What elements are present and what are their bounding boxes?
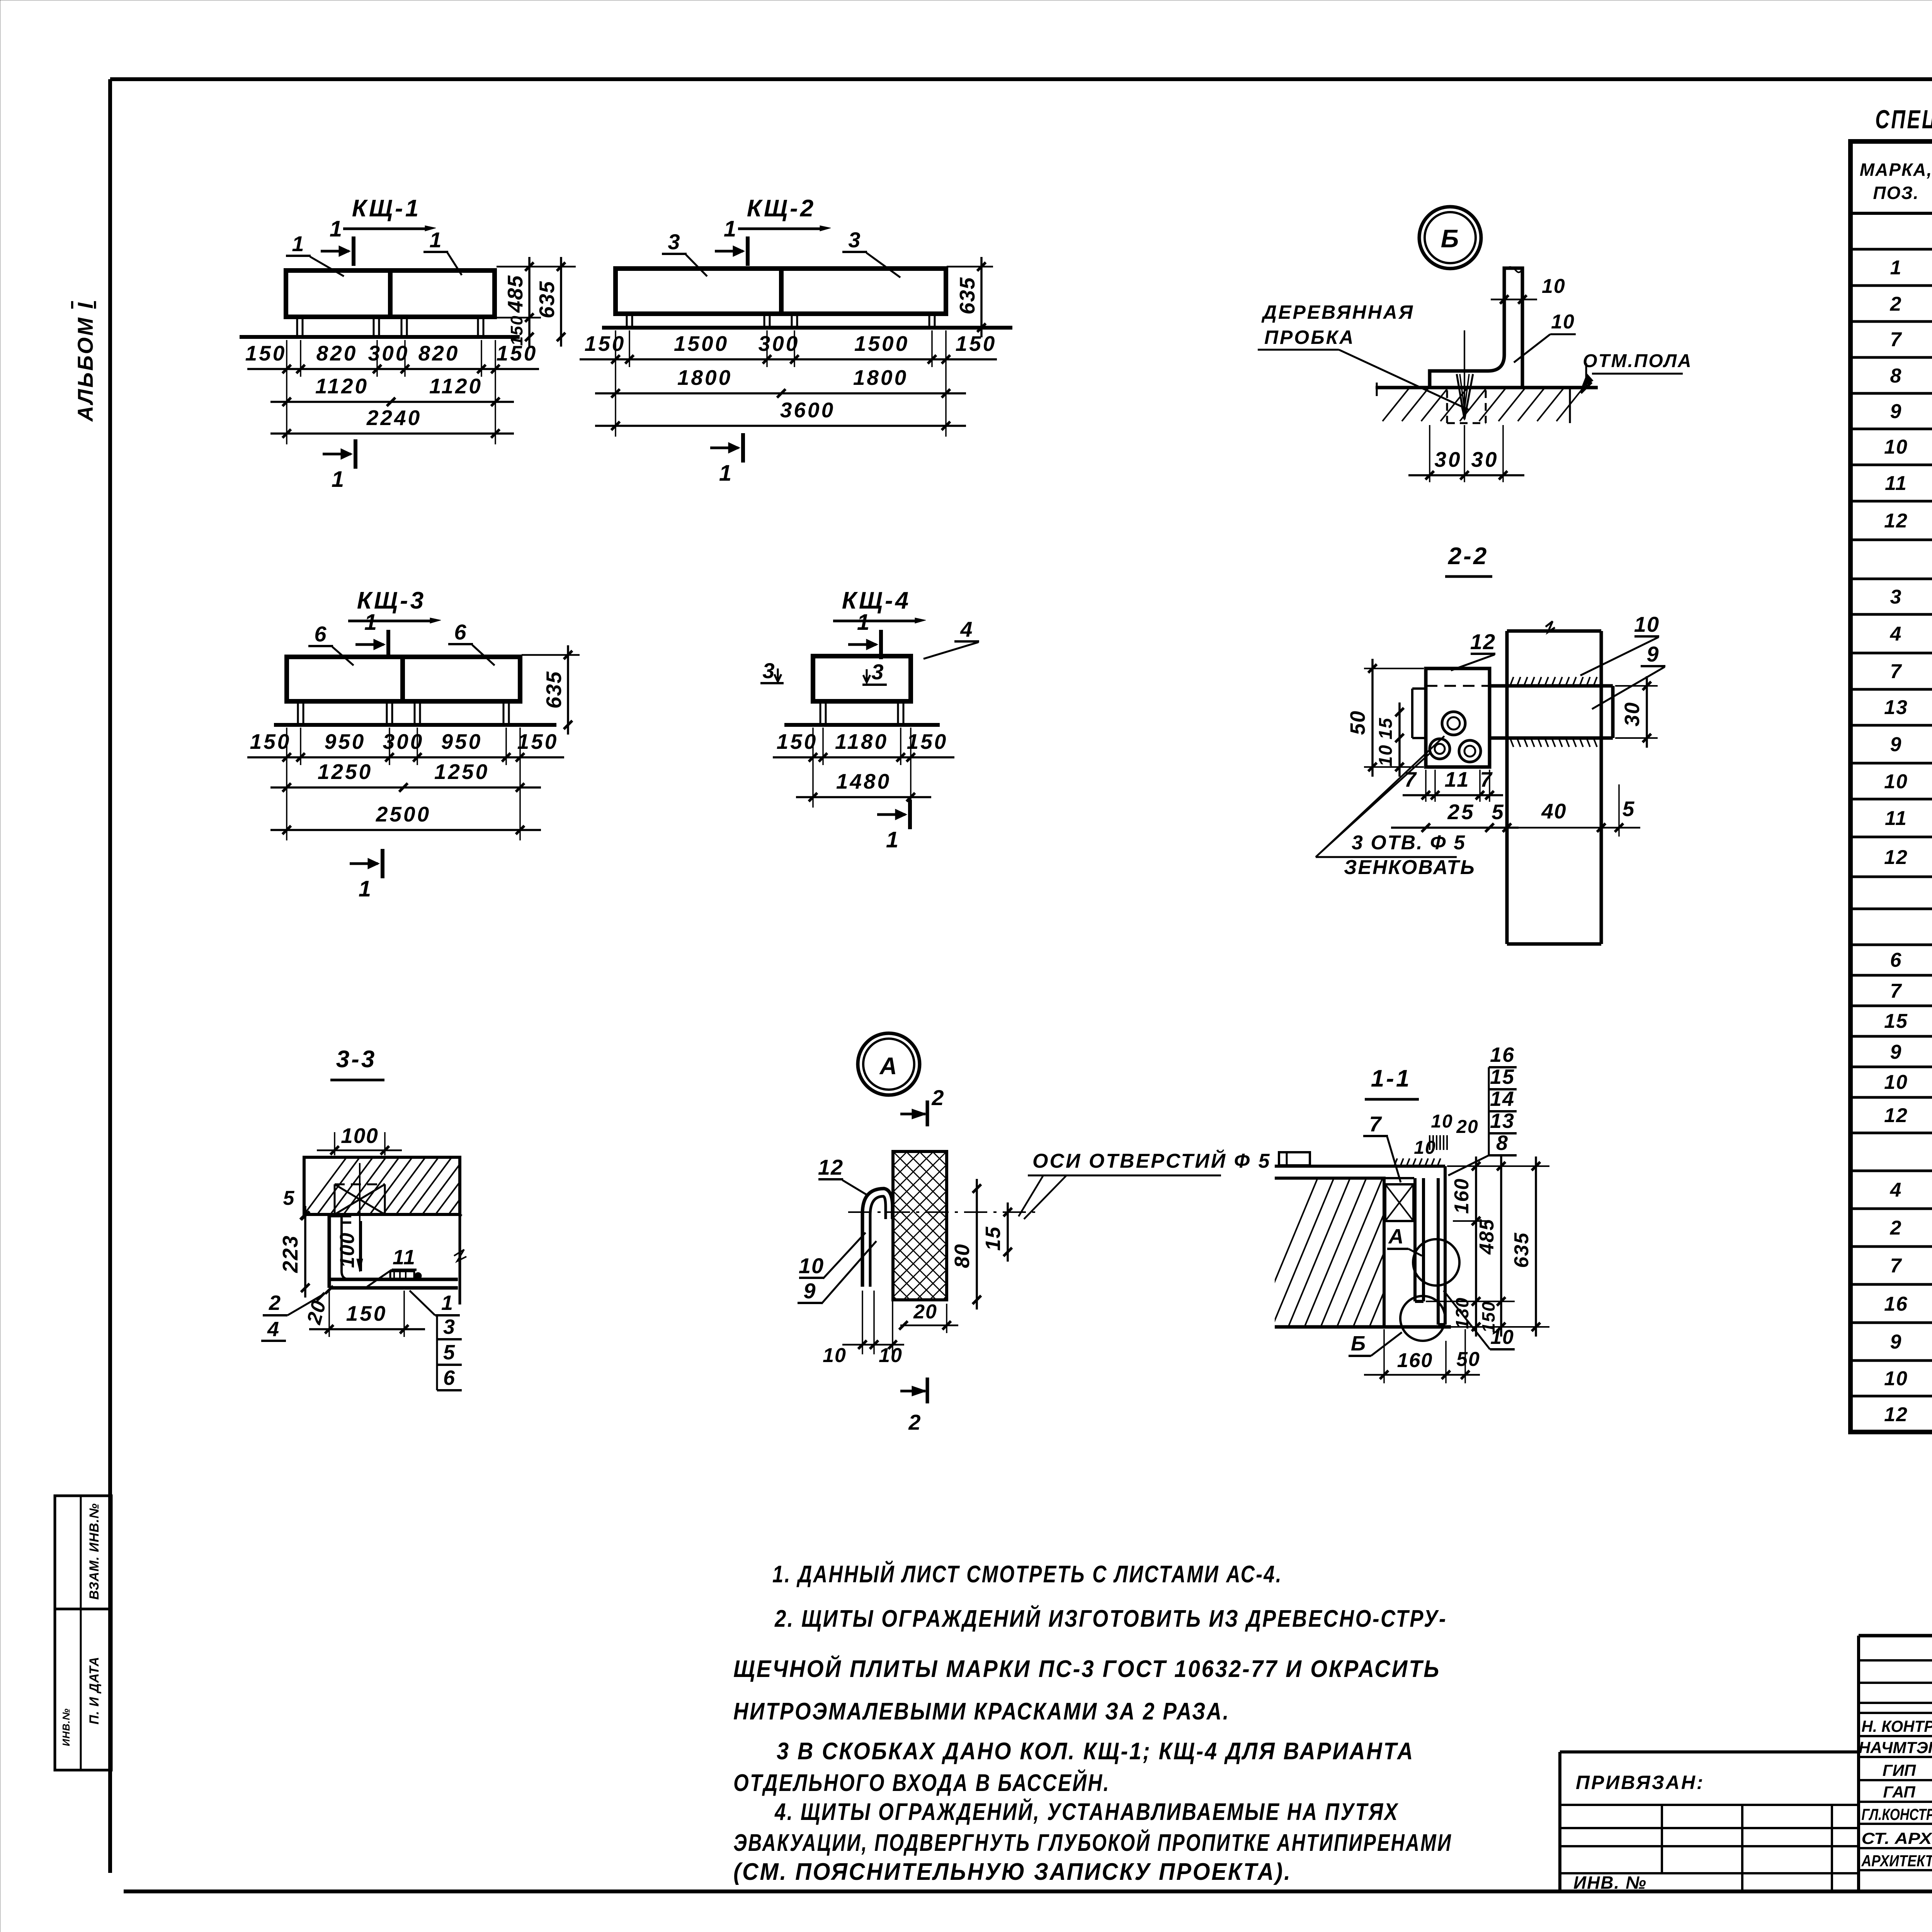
svg-text:ОТДЕЛЬНОГО ВХОДА В БАССЕЙН: ОТДЕЛЬНОГО ВХОДА В БАССЕЙН. [733,1769,1110,1796]
right dims 160/485/130/150/635 (1-1) [1447,1165,1549,1167]
top strip (1-1) [1275,1165,1445,1168]
panel КЩ-3 body [287,657,520,701]
detail circle А [858,1033,920,1095]
svg-text:2. ЩИТЫ ОГРАЖДЕНИЙ ИЗГОТОВИТ: 2. ЩИТЫ ОГРАЖДЕНИЙ ИЗГОТОВИТЬ ИЗ ДРЕВЕСН… [774,1605,1447,1632]
C-profile (3-3) [329,1216,458,1288]
floor line and hatch (detail Б) [1376,386,1598,389]
svg-text:СТ. АРХ.: СТ. АРХ. [1862,1829,1932,1847]
привязан box [1560,1750,1859,1753]
svg-text:6: 6 [454,620,467,644]
svg-text:15: 15 [1376,717,1396,739]
panel КЩ-2 legs [626,314,628,328]
strip 9 (horizontal) [1488,684,1613,688]
svg-text:950: 950 [441,730,483,753]
svg-text:80: 80 [951,1243,974,1268]
plug cross in wall [335,1184,385,1185]
svg-text:А: А [879,1053,898,1080]
svg-text:150: 150 [250,730,291,753]
dim 30 right [1615,685,1658,687]
dims 50/15/10 left [1364,668,1424,669]
svg-text:13: 13 [1884,696,1908,719]
svg-text:150: 150 [245,341,287,365]
svg-text:2: 2 [1890,293,1902,315]
svg-text:7: 7 [1369,1112,1382,1136]
dim 10 (vertical leg thickness) [1491,299,1537,301]
svg-text:4: 4 [1890,1179,1902,1201]
masonry wall (3-3) [304,1157,460,1214]
svg-text:10: 10 [1884,436,1908,458]
svg-text:АЛЬБОМ I: АЛЬБОМ I [73,301,97,422]
svg-text:820: 820 [418,341,460,365]
svg-text:20: 20 [1456,1117,1478,1137]
svg-text:300: 300 [368,341,410,365]
svg-text:1500: 1500 [854,332,909,355]
svg-text:1: 1 [364,610,378,635]
svg-text:25: 25 [1447,800,1475,824]
svg-text:1: 1 [1890,257,1902,279]
section 2-2: plate 12 [1426,668,1490,767]
svg-text:ВЗАМ. ИНВ.№: ВЗАМ. ИНВ.№ [87,1503,102,1600]
svg-text:12: 12 [1884,1403,1908,1426]
svg-text:1: 1 [292,231,304,256]
panel КЩ-2 body [616,269,946,314]
section mark 1 top (КЩ-3) [355,643,384,646]
svg-text:15: 15 [981,1226,1005,1251]
svg-text:3-3: 3-3 [336,1046,377,1073]
detail circle Б [1419,207,1481,269]
svg-text:4: 4 [267,1318,280,1341]
dim row 1120/1120 (КЩ-1) [270,401,514,403]
svg-text:1500: 1500 [674,332,729,355]
стойка 10 (vertical bar) [1505,631,1509,944]
svg-text:12: 12 [1884,846,1908,869]
svg-text:10: 10 [1551,311,1575,333]
svg-text:МАРКА,: МАРКА, [1860,160,1932,180]
panel КЩ-4 legs [820,701,821,725]
dim row 1480 (КЩ-4) [796,796,931,798]
svg-text:4: 4 [1890,623,1902,645]
dims 25/5 bottom [1391,827,1519,829]
svg-text:1. ДАННЫЙ ЛИСТ СМОТРЕТЬ С: 1. ДАННЫЙ ЛИСТ СМОТРЕТЬ С ЛИСТАМИ АС-4. [772,1560,1282,1588]
svg-text:10: 10 [1884,1071,1908,1094]
svg-text:9: 9 [1646,642,1659,666]
dim 150 (3-3) [328,1291,330,1337]
svg-text:4. ЩИТЫ ОГРАЖДЕНИЙ, УСТАНАВЛИ: 4. ЩИТЫ ОГРАЖДЕНИЙ, УСТАНАВЛИВАЕМЫЕ НА П… [774,1798,1399,1825]
svg-text:1-1: 1-1 [1371,1065,1412,1092]
dim row 1800/1800 (КЩ-2) [595,392,966,395]
svg-text:1: 1 [332,467,345,492]
section mark 1 bottom (КЩ-4) [877,813,905,816]
svg-text:10: 10 [799,1253,824,1278]
svg-text:14: 14 [1490,1087,1515,1111]
svg-text:485: 485 [503,275,527,313]
dim row 150/1500/300/1500/150 (КЩ-2) [615,330,616,367]
svg-text:6: 6 [314,622,327,646]
dim row 150/1180/150 (КЩ-4) [812,728,814,765]
svg-text:ПРИВЯЗАН:: ПРИВЯЗАН: [1576,1772,1705,1793]
svg-text:150: 150 [907,730,948,753]
svg-text:10: 10 [1542,275,1566,298]
dim 100 top (3-3) [334,1144,335,1155]
svg-text:ПОЗ.: ПОЗ. [1873,183,1919,203]
axis line (А) [848,1211,1036,1213]
svg-text:ИНВ. №: ИНВ. № [1573,1872,1647,1893]
svg-text:1250: 1250 [318,760,372,784]
dim row 1250/1250 (КЩ-3) [270,786,541,789]
detail circles А Б (1-1) [1413,1239,1459,1286]
svg-text:7: 7 [1890,660,1902,683]
svg-text:9: 9 [1890,1331,1902,1353]
svg-text:5: 5 [283,1187,295,1209]
wall right edge below [459,1214,461,1304]
svg-text:СПЕЦИФИКАЦИЯ: СПЕЦИФИКАЦИЯ [1875,105,1932,134]
svg-text:15: 15 [1884,1010,1908,1032]
svg-text:150: 150 [497,341,538,365]
svg-text:ЩЕЧНОЙ ПЛИТЫ МАРКИ ПС-3 ГО: ЩЕЧНОЙ ПЛИТЫ МАРКИ ПС-3 ГОСТ 10632-77 И … [733,1655,1440,1682]
dim 80 (А) [976,1179,978,1310]
svg-text:635: 635 [955,277,979,315]
svg-text:100: 100 [341,1124,379,1148]
svg-text:12: 12 [818,1155,844,1179]
svg-text:10: 10 [1634,612,1660,636]
svg-text:7: 7 [1890,980,1902,1002]
dim 20 (А) [946,1304,947,1333]
wall hatched (1-1) [1275,1178,1384,1327]
svg-text:1: 1 [330,216,343,241]
svg-text:1: 1 [724,216,737,241]
svg-text:1: 1 [886,827,899,852]
svg-text:6: 6 [443,1366,456,1389]
hatched panel (А) [893,1151,947,1300]
svg-text:10: 10 [1431,1111,1453,1132]
svg-text:223: 223 [278,1235,302,1273]
svg-text:ГЛ.КОНСТР.: ГЛ.КОНСТР. [1862,1805,1932,1823]
svg-text:150: 150 [517,730,559,753]
svg-text:8: 8 [1496,1131,1509,1155]
svg-text:2: 2 [269,1291,281,1315]
panel КЩ-1 body [286,270,495,317]
svg-text:3: 3 [871,660,884,684]
svg-text:Б: Б [1441,224,1460,253]
svg-text:30: 30 [1621,702,1644,726]
svg-text:3: 3 [762,658,775,683]
svg-text:АРХИТЕКТ.: АРХИТЕКТ. [1861,1852,1932,1870]
svg-text:1: 1 [719,461,732,486]
block 7 between wall and panel [1385,1184,1413,1221]
svg-text:1120: 1120 [429,374,483,398]
dim row 2240 (КЩ-1) [270,432,514,435]
svg-text:3: 3 [668,230,680,254]
angle profile 10 (detail Б) [1430,268,1522,388]
svg-text:16: 16 [1490,1043,1515,1066]
svg-text:2: 2 [931,1085,944,1110]
section mark 1 top (КЩ-4) [848,643,876,646]
table grid [1850,141,1932,1432]
svg-text:9: 9 [1890,733,1902,756]
ground line under КЩ-4 [784,723,940,727]
svg-text:635: 635 [535,281,559,318]
svg-text:16: 16 [1884,1293,1908,1315]
svg-text:ПРОБКА: ПРОБКА [1264,327,1355,348]
svg-text:160: 160 [1397,1349,1433,1372]
svg-text:820: 820 [316,341,358,365]
svg-text:1: 1 [359,876,372,901]
svg-text:9: 9 [1890,400,1902,423]
svg-text:А: А [1388,1225,1405,1248]
svg-text:1120: 1120 [315,374,369,398]
bolts (3 отв) [1442,712,1465,735]
svg-text:(СМ. ПОЯСНИТЕЛЬНУЮ ЗАПИСКУ: (СМ. ПОЯСНИТЕЛЬНУЮ ЗАПИСКУ ПРОЕКТА). [733,1859,1292,1885]
svg-text:2: 2 [908,1410,921,1434]
svg-text:ОСИ ОТВЕРСТИЙ Ф 5: ОСИ ОТВЕРСТИЙ Ф 5 [1032,1149,1271,1172]
svg-text:150: 150 [956,332,997,355]
svg-text:1800: 1800 [677,366,732,389]
svg-text:ЗЕНКОВАТЬ: ЗЕНКОВАТЬ [1344,856,1476,879]
svg-text:2-2: 2-2 [1448,543,1489,570]
svg-text:2500: 2500 [376,802,431,826]
vertical panel and стойка (1-1) [1413,1178,1417,1301]
svg-text:635: 635 [1510,1232,1533,1268]
dim row 2500 (КЩ-3) [270,829,541,831]
dims 40/5 bottom [1597,823,1605,832]
svg-text:1: 1 [857,610,870,635]
svg-text:5: 5 [443,1341,456,1364]
svg-text:635: 635 [542,671,566,709]
section mark 1 bottom (КЩ-2) [710,447,738,449]
anchor at left top (1-1) [1279,1152,1310,1165]
svg-text:Н. КОНТР.: Н. КОНТР. [1862,1717,1932,1735]
svg-text:НИТРОЭМАЛЕВЫМИ КРАСКАМИ З: НИТРОЭМАЛЕВЫМИ КРАСКАМИ ЗА 2 РАЗА. [733,1698,1230,1725]
svg-text:100: 100 [336,1232,359,1268]
hook 12 (А) [862,1189,893,1287]
svg-text:11: 11 [1885,807,1907,830]
svg-text:1800: 1800 [853,366,908,389]
svg-text:10: 10 [1884,1367,1908,1390]
svg-text:ИНВ.№: ИНВ.№ [60,1708,72,1746]
svg-text:10: 10 [1376,744,1396,766]
svg-text:11: 11 [393,1246,416,1269]
svg-text:3 ОТВ. Ф 5: 3 ОТВ. Ф 5 [1352,832,1466,854]
height dims 485/150/635 (КЩ-1) [497,266,576,268]
svg-text:485: 485 [1476,1219,1498,1255]
svg-text:3: 3 [1890,586,1902,608]
svg-text:КЩ-2: КЩ-2 [747,195,816,222]
svg-text:20: 20 [913,1301,937,1323]
svg-text:50: 50 [1346,710,1369,735]
svg-text:8: 8 [1890,365,1902,387]
svg-text:НАЧМТЭП: НАЧМТЭП [1859,1738,1932,1757]
svg-text:12: 12 [1884,510,1908,532]
svg-text:3: 3 [443,1315,456,1338]
svg-text:3: 3 [848,228,861,252]
svg-text:4: 4 [960,617,973,641]
section mark 1 bottom (КЩ-3) [350,862,378,865]
svg-text:КЩ-1: КЩ-1 [352,195,421,222]
svg-text:1180: 1180 [835,730,888,753]
panel КЩ-4 body [813,656,911,701]
svg-text:30: 30 [1471,447,1498,471]
svg-text:150: 150 [346,1301,388,1325]
bolt 11 on bottom strip [390,1271,414,1280]
svg-text:11: 11 [1444,767,1470,791]
panel КЩ-3 legs [297,701,299,725]
svg-text:15: 15 [1490,1065,1515,1088]
section mark 2 bottom (А) [900,1390,925,1393]
svg-text:7: 7 [1890,1255,1902,1277]
ground line under КЩ-1 [240,335,520,339]
dim 223 (3-3) [304,1206,306,1298]
svg-text:9: 9 [803,1279,816,1303]
svg-text:12: 12 [1884,1104,1908,1127]
ground line (1-1) [1275,1325,1451,1329]
svg-text:1: 1 [429,228,442,252]
svg-text:10: 10 [1490,1326,1514,1349]
svg-text:3 В СКОБКАХ ДАНО КОЛ. КЩ-1: 3 В СКОБКАХ ДАНО КОЛ. КЩ-1; КЩ-4 ДЛЯ ВАР… [777,1738,1414,1765]
svg-text:9: 9 [1890,1041,1902,1063]
dim 15 (А) [1007,1202,1009,1262]
svg-text:10: 10 [823,1344,847,1367]
ground line under КЩ-2 [602,326,1012,330]
svg-text:2: 2 [1890,1217,1902,1239]
svg-text:3600: 3600 [780,398,835,422]
svg-text:П. И ДАТА: П. И ДАТА [87,1656,102,1725]
left margin stamp boxes [55,1496,111,1770]
teeth on top strip (1-1) [1394,1158,1397,1166]
svg-text:5: 5 [1622,797,1635,821]
svg-text:Б: Б [1351,1332,1366,1355]
svg-text:1250: 1250 [434,760,489,784]
dim 100 inside (3-3) [361,1221,362,1271]
svg-text:150: 150 [585,332,626,355]
svg-text:10: 10 [1884,770,1908,793]
dim row 150/820/300/820/150 (КЩ-1) [286,340,287,377]
svg-text:11: 11 [1885,472,1907,495]
svg-text:950: 950 [325,730,366,753]
title block grid [1857,1636,1860,1891]
svg-text:300: 300 [383,730,424,753]
svg-text:1480: 1480 [836,769,891,793]
section mark 1 top (КЩ-2) [715,250,743,253]
dim row 150/950/300/950/150 (КЩ-3) [286,728,287,765]
svg-text:ЭВАКУАЦИИ, ПОДВЕРГНУТЬ ГЛУБОК: ЭВАКУАЦИИ, ПОДВЕРГНУТЬ ГЛУБОКОЙ ПРОПИТКЕ… [733,1829,1452,1856]
svg-text:ГАП: ГАП [1883,1783,1915,1801]
svg-text:5: 5 [1492,800,1505,824]
svg-text:ДЕРЕВЯННАЯ: ДЕРЕВЯННАЯ [1261,301,1414,323]
serration teeth [1510,677,1514,686]
section mark 1 bottom (КЩ-1) [323,453,351,456]
svg-text:300: 300 [759,332,800,355]
svg-text:7: 7 [1890,328,1902,351]
svg-text:40: 40 [1541,799,1566,823]
dim 160/50 bottom (1-1) [1383,1329,1385,1383]
svg-text:1: 1 [441,1291,454,1315]
svg-text:2240: 2240 [366,406,422,430]
dims 7/11/7 bottom [1425,770,1427,802]
ground line under КЩ-3 [274,723,556,727]
svg-text:13: 13 [1490,1109,1515,1133]
dim row 3600 (КЩ-2) [595,425,966,427]
dims 10/10 bottom (А) [862,1291,863,1354]
svg-text:50: 50 [1456,1348,1480,1371]
svg-text:ОТМ.ПОЛА: ОТМ.ПОЛА [1583,351,1692,371]
dims 30 30 (plug) [1429,425,1430,482]
svg-text:КЩ-4: КЩ-4 [842,587,911,614]
height dim 635 (КЩ-2) [947,266,993,268]
svg-text:ГИП: ГИП [1883,1761,1916,1779]
svg-text:6: 6 [1890,949,1902,971]
wooden plug below floor [1446,390,1448,423]
svg-text:160: 160 [1451,1178,1473,1214]
svg-text:7: 7 [1480,767,1494,791]
svg-text:12: 12 [1470,629,1496,654]
section mark 1 top (КЩ-1) [321,250,349,253]
page border frame [110,77,1932,81]
svg-text:150: 150 [777,730,818,753]
height dim 635 (КЩ-3) [522,654,580,656]
panel КЩ-1 legs [296,317,298,337]
svg-text:30: 30 [1434,447,1462,471]
svg-text:10: 10 [879,1344,903,1367]
